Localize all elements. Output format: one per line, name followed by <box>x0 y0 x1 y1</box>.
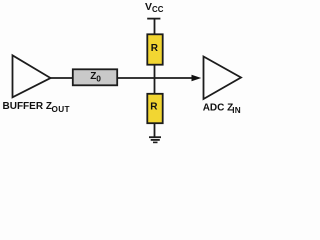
svg-text:V: V <box>145 1 152 13</box>
svg-text:R: R <box>150 102 158 113</box>
svg-text:OUT: OUT <box>52 105 70 114</box>
svg-text:CC: CC <box>152 5 164 14</box>
svg-text:0: 0 <box>96 73 101 83</box>
svg-text:IN: IN <box>232 106 241 115</box>
svg-text:BUFFER Z: BUFFER Z <box>3 101 52 112</box>
svg-text:R: R <box>151 43 159 54</box>
svg-text:ADC Z: ADC Z <box>203 103 234 114</box>
